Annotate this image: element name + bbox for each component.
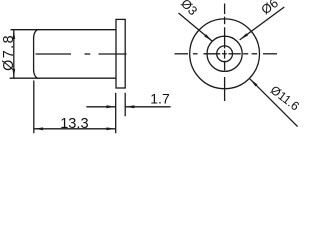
svg-text:1.7: 1.7 <box>150 91 170 107</box>
svg-text:13.3: 13.3 <box>60 116 88 132</box>
svg-text:Ø7.8: Ø7.8 <box>1 34 17 71</box>
